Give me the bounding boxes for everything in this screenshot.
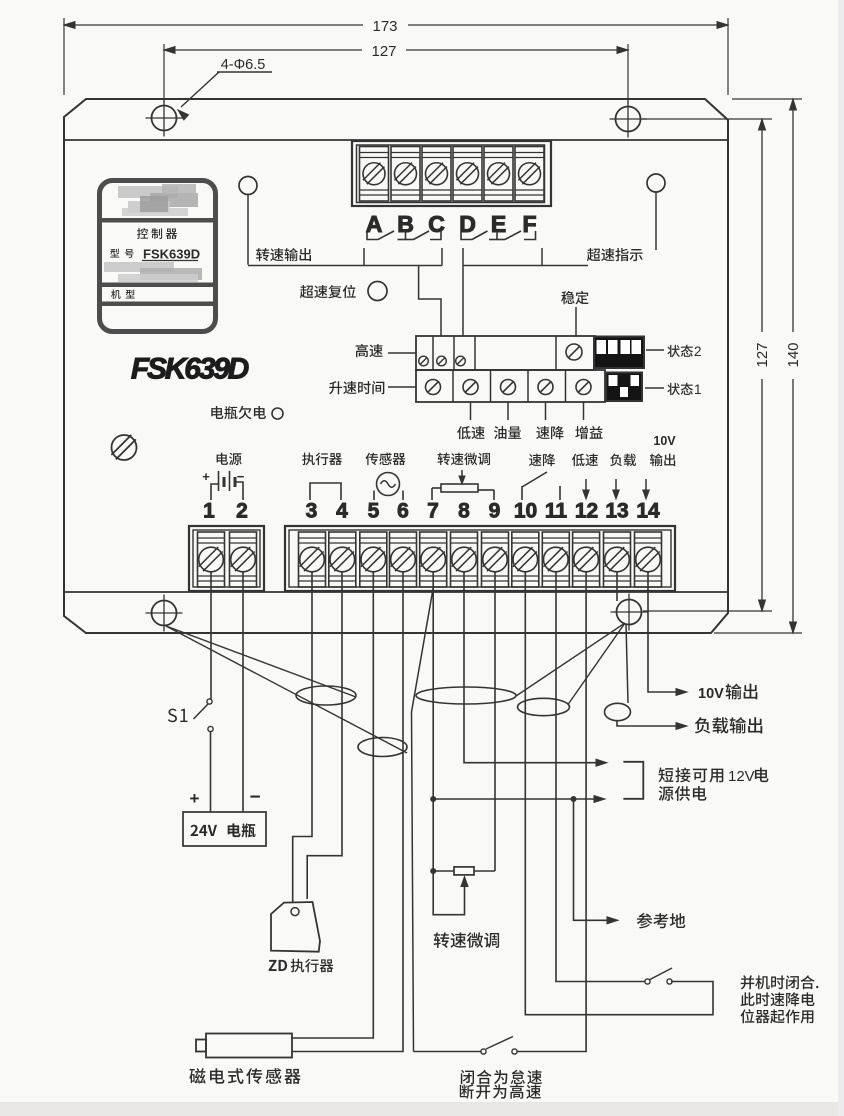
label disu (low speed) xyxy=(457,426,485,439)
label fuzai (load) xyxy=(610,454,636,467)
wire terminal 14 to 10V output arrow xyxy=(648,572,679,692)
svg-text:8: 8 xyxy=(458,500,470,523)
mounting hole bottom-left xyxy=(152,601,177,626)
dimension extension lines right side xyxy=(642,118,772,120)
trim block upper row box xyxy=(416,336,595,370)
terminal 14 tower xyxy=(635,532,662,587)
battery-low indicator circle xyxy=(272,408,283,419)
small trim screws x3 xyxy=(419,356,429,366)
label cankaodi (reference ground) xyxy=(637,913,685,928)
svg-text:10V: 10V xyxy=(653,434,676,448)
shield line hole to sensor ellipse xyxy=(166,626,407,753)
leader line high speed xyxy=(388,352,416,354)
terminal 4 tower xyxy=(329,532,356,587)
wire terminal 11 to paralleling switch xyxy=(556,572,645,982)
wire terminal 2 to battery minus xyxy=(242,572,244,812)
terminal 1 tower xyxy=(198,532,225,587)
svg-text:127: 127 xyxy=(754,342,771,367)
label fuzai-shuchu (load output) xyxy=(695,717,763,733)
label youliang (fuel) xyxy=(494,426,521,439)
svg-text:F: F xyxy=(522,211,536,237)
wire terminal 10 to paralleling loop xyxy=(525,572,713,1015)
chassis screw left xyxy=(112,435,137,460)
svg-text:5: 5 xyxy=(368,500,380,523)
bracket group D-E-F with label line xyxy=(463,265,588,267)
terminal A tower xyxy=(360,147,389,202)
terminal 13 tower xyxy=(604,532,631,587)
cable shield ellipse sensor xyxy=(358,738,407,757)
svg-text:2: 2 xyxy=(236,500,248,523)
lower 12V line from wire 7 xyxy=(433,798,598,800)
droop switch symbol xyxy=(521,486,523,500)
svg-text:13: 13 xyxy=(605,500,628,523)
svg-text:−: − xyxy=(249,787,260,808)
slanted wire from terminal 7 to idle switch xyxy=(412,588,434,1052)
svg-text:FSK639D: FSK639D xyxy=(131,353,249,386)
test point circle top-left xyxy=(239,177,257,195)
svg-text:127: 127 xyxy=(371,43,396,60)
label dianping-qiandian (battery low) xyxy=(211,406,266,419)
svg-text:9: 9 xyxy=(489,500,501,523)
shield line hole to droop ellipse xyxy=(568,623,625,705)
nameplate model row xyxy=(110,249,133,258)
terminal 8 tower xyxy=(451,532,478,587)
terminal B tower xyxy=(391,147,420,202)
relay contact B xyxy=(405,231,407,240)
cable shield ellipse droop xyxy=(518,698,570,715)
wire terminal 1 to switch S1 xyxy=(210,572,212,699)
12V short bracket xyxy=(623,762,643,799)
wire from test point to speed-output bracket xyxy=(247,195,249,265)
ZD actuator symbol xyxy=(271,902,320,952)
cable shield ellipse speed-trim xyxy=(416,687,516,704)
DIP switch block status-2 xyxy=(594,337,644,369)
terminal 7 tower xyxy=(420,532,447,587)
label zhuansu-shuchu (speed output) xyxy=(256,248,311,261)
relay contact C xyxy=(430,231,441,240)
wire from indicator circle down xyxy=(655,192,657,250)
wire terminal 8 to 12V arrow upper xyxy=(464,572,600,763)
relay contact D xyxy=(461,232,472,240)
label sujiang (droop) terminal xyxy=(529,454,555,467)
label wending (stability) xyxy=(561,291,588,304)
svg-text:A: A xyxy=(366,211,383,237)
overspeed reset circle xyxy=(368,282,387,301)
mounting hole top-left xyxy=(152,106,177,131)
svg-text:4: 4 xyxy=(336,500,348,523)
svg-text:140: 140 xyxy=(785,342,802,367)
label disu (low speed) terminal xyxy=(572,454,598,467)
external speed trim pot xyxy=(430,868,436,874)
terminal 12 tower xyxy=(573,532,600,587)
sensor symbol circle with sine xyxy=(377,473,400,496)
label ZD zhixingqi (ZD actuator) xyxy=(269,960,287,971)
terminal block 3-14 outer xyxy=(285,526,675,591)
label line status-1 xyxy=(645,387,664,389)
mounting hole bottom-right xyxy=(617,600,642,625)
wire terminal 6 to sensor xyxy=(292,572,403,1052)
battery symbol xyxy=(218,471,220,491)
terminal 6 tower xyxy=(390,532,417,587)
svg-text:12: 12 xyxy=(575,500,598,523)
reference ground wire xyxy=(574,799,611,920)
idle/high-speed switch xyxy=(512,1049,517,1054)
controller enclosure outline xyxy=(64,99,728,633)
wire S1 to battery plus xyxy=(210,732,212,813)
terminal E tower xyxy=(484,147,513,202)
DIP switch block status-1 xyxy=(606,373,642,402)
nameplate text jixing (machine type) xyxy=(111,290,135,299)
svg-text:1: 1 xyxy=(694,382,702,397)
wire to load output arrow xyxy=(617,721,679,726)
label line status-2 xyxy=(646,349,664,351)
svg-text:2: 2 xyxy=(694,344,702,359)
wire terminal 9 to ext pot right xyxy=(494,572,496,871)
label zhuansu-weitiao external pot xyxy=(434,932,499,948)
svg-text:E: E xyxy=(491,211,506,237)
cable shield ellipse actuator xyxy=(296,686,356,705)
bottom flange fold line xyxy=(64,591,728,593)
indicator circle top-right xyxy=(647,174,665,192)
svg-text:3: 3 xyxy=(306,500,318,523)
nameplate blurred row 1 xyxy=(118,186,178,198)
lower row pot screws x5 xyxy=(426,380,441,395)
label chaosu-fuwei (overspeed reset) xyxy=(300,285,356,298)
speed trim pot symbol xyxy=(441,484,478,492)
switch S1 xyxy=(207,699,212,704)
label zhuangtai-1 (status 1) xyxy=(667,383,693,395)
wire hole to load ellipse xyxy=(626,624,628,703)
paralleling switch xyxy=(645,979,650,984)
wire terminal 12 to idle switch xyxy=(517,572,586,1052)
terminal C tower xyxy=(422,147,451,202)
label sujiang (droop) xyxy=(536,426,564,439)
wire stability label to pot xyxy=(575,307,577,336)
mounting hole top-right xyxy=(616,107,641,132)
dimension line 140 right xyxy=(792,99,794,332)
terminal 10 tower xyxy=(512,532,539,587)
actuator bracket symbol xyxy=(310,483,341,500)
label zhuangtai-2 (status 2) xyxy=(667,345,693,357)
svg-text:C: C xyxy=(428,211,445,237)
nameplate panel frame xyxy=(100,181,216,332)
svg-text:6: 6 xyxy=(397,500,409,523)
relay contact E xyxy=(496,231,498,240)
nameplate text kongzhiqi (controller) xyxy=(137,228,177,239)
svg-text:−: − xyxy=(237,469,245,484)
top flange fold line xyxy=(64,139,728,141)
label chuanganqi (sensor) xyxy=(365,453,405,466)
terminal 5 tower xyxy=(360,532,387,587)
wire terminal 5 to sensor xyxy=(292,572,373,1038)
shield line hole to actuator ellipse xyxy=(166,626,356,697)
svg-text:173: 173 xyxy=(372,18,397,35)
leader ticks below trim row xyxy=(470,402,472,420)
svg-text:1: 1 xyxy=(203,500,215,523)
label dianyuan (power) xyxy=(217,453,242,465)
terminal block A-F outer xyxy=(352,141,551,206)
svg-text:14: 14 xyxy=(636,500,660,523)
nameplate blurred row 2 xyxy=(104,262,174,272)
dimension line 127 right xyxy=(761,119,763,332)
label chaosu-zhishi (overspeed indication) xyxy=(587,248,643,261)
label shengsu-shijian (accel time) xyxy=(329,381,384,394)
bracket group A-B-C with label line xyxy=(248,265,442,267)
label idle switch note xyxy=(461,1070,542,1085)
svg-text:10V: 10V xyxy=(698,686,724,702)
label zhuansu-weitiao (speed trim) xyxy=(437,453,490,466)
stability pot screw xyxy=(566,344,582,360)
label zengyi (gain) xyxy=(575,426,602,439)
magnetic pickup sensor symbol xyxy=(206,1034,292,1058)
terminal 3 tower xyxy=(299,532,326,587)
svg-text:12V: 12V xyxy=(728,768,755,785)
svg-text:10: 10 xyxy=(514,500,537,523)
relay contact A xyxy=(367,232,378,240)
dimension 173 extension lines xyxy=(63,18,65,95)
dimension line 173 xyxy=(64,24,363,26)
svg-text:+: + xyxy=(202,469,210,484)
terminal 2 tower xyxy=(230,532,257,587)
junction dot reference ground wire xyxy=(571,796,577,802)
relay contact F xyxy=(524,231,536,240)
load tap ellipse xyxy=(605,703,631,720)
svg-text:7: 7 xyxy=(427,500,439,523)
label duanjie 12V (short for 12V supply) xyxy=(659,768,724,783)
terminal 9 tower xyxy=(482,532,509,587)
terminal block 1-2 outer xyxy=(189,526,264,591)
terminal D tower xyxy=(453,147,482,202)
wire bracket2 down to trim block xyxy=(462,248,464,336)
dimension line 127 top xyxy=(164,49,362,51)
svg-text:FSK639D: FSK639D xyxy=(143,247,200,262)
label bingji (paralleling note) xyxy=(741,975,819,989)
terminal F tower xyxy=(515,147,544,202)
svg-text:11: 11 xyxy=(545,500,568,523)
wire terminal 4 to ZD actuator xyxy=(307,572,342,899)
leader line accel time xyxy=(388,386,416,388)
label zhixingqi (actuator) xyxy=(302,453,342,466)
down arrows 12 13 14 xyxy=(585,479,587,492)
wire terminal 7 down to ext pot xyxy=(432,572,434,871)
wire terminal 13 into mounting hole xyxy=(616,572,618,601)
shield line hole to speed-trim ellipse xyxy=(516,623,625,696)
wire terminal 3 to ZD actuator xyxy=(293,572,312,903)
trim block lower row box xyxy=(416,370,605,402)
label cidianshi-chuanganqi (magnetic sensor) xyxy=(189,1068,300,1084)
wire bracket1 down to trim block xyxy=(419,266,441,337)
junction dot 12V line lower xyxy=(430,796,436,802)
svg-text:+: + xyxy=(190,789,200,808)
dimension 127 extension lines (hole centres) xyxy=(163,44,165,103)
terminal 11 tower xyxy=(542,532,569,587)
svg-text:4-Φ6.5: 4-Φ6.5 xyxy=(221,57,266,73)
label gaosu (high speed) xyxy=(356,344,383,357)
